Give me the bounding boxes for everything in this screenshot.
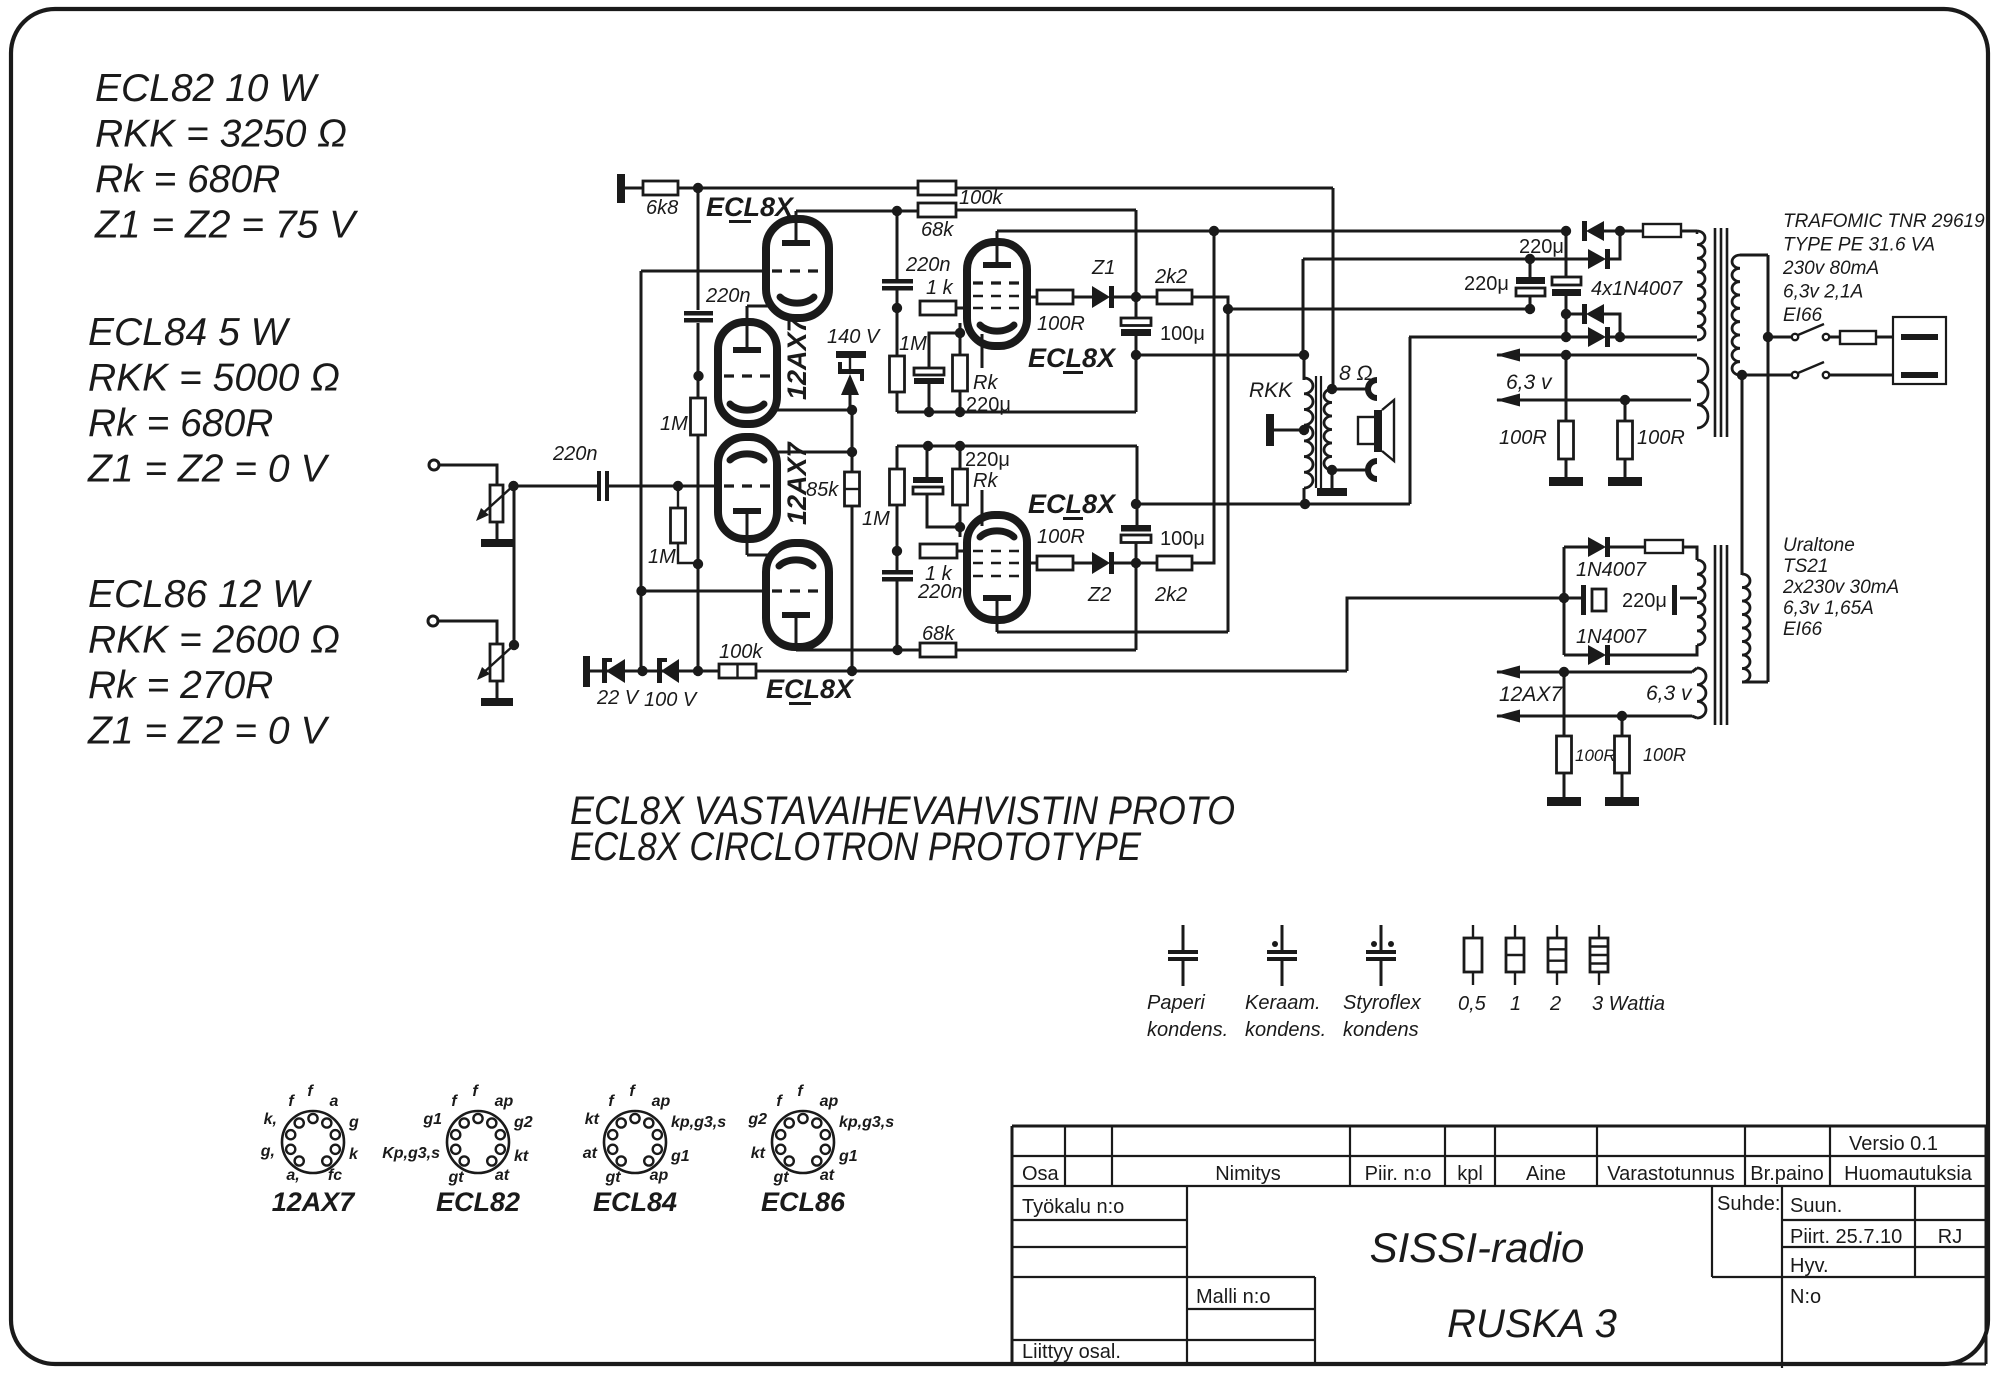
node x1742 — [1737, 370, 1747, 380]
svg-text:2k2: 2k2 — [1154, 584, 1187, 606]
svg-text:at: at — [583, 1145, 598, 1162]
legend resistor 0,5W — [1472, 925, 1474, 938]
wire x1136 B upper — [1136, 446, 1139, 525]
svg-text:220μ: 220μ — [1519, 236, 1564, 258]
wire x1136 B lower — [1135, 543, 1138, 563]
node rail B 220u — [923, 441, 933, 451]
capacitor 220u uraltone — [1581, 585, 1586, 615]
zener 140V — [849, 358, 851, 371]
wire speaker bottom — [1332, 469, 1371, 472]
svg-text:140 V: 140 V — [827, 326, 881, 348]
svg-text:ECL86 12 W: ECL86 12 W — [88, 573, 312, 616]
wire zener to x852 — [849, 395, 852, 412]
svg-text:100R: 100R — [1499, 427, 1547, 449]
capacitor 220n cell B — [882, 570, 913, 575]
socket ECL84 — [604, 1111, 666, 1173]
socket 12AX7 — [282, 1111, 344, 1173]
svg-text:kondens.: kondens. — [1245, 1019, 1326, 1041]
node Z2 x1136 — [1131, 558, 1141, 568]
resistor 100R psuA1 — [1565, 355, 1568, 421]
resistor 1k B — [920, 544, 957, 558]
node x852 y410 — [847, 405, 857, 415]
node RKK top — [1299, 350, 1309, 360]
svg-text:1 k: 1 k — [926, 277, 954, 299]
legend ceramic cap — [1281, 925, 1284, 950]
connector speaker bottom — [1368, 461, 1377, 479]
wire heater bottom line — [1497, 715, 1692, 718]
wire capA top lead — [1529, 259, 1532, 277]
node grid V1 — [693, 371, 703, 381]
wire cath B stub — [959, 527, 962, 537]
node x1768 switch — [1763, 332, 1773, 342]
wire UR tube to 100R — [1027, 296, 1037, 299]
wire x1136 A lower — [1135, 336, 1138, 412]
svg-text:RJ: RJ — [1938, 1226, 1962, 1248]
svg-text:g1: g1 — [670, 1148, 690, 1165]
wire wiper bus — [513, 487, 516, 644]
svg-text:1M: 1M — [648, 546, 676, 568]
svg-text:g2: g2 — [513, 1114, 533, 1131]
wire 220n B to 68k — [896, 581, 899, 650]
svg-text:kondens.: kondens. — [1147, 1019, 1228, 1041]
svg-text:kp,g3,s: kp,g3,s — [671, 1114, 726, 1131]
wire D2 right — [1606, 231, 1620, 259]
resistor 100k bias — [719, 664, 756, 678]
wire 1M A to rail — [896, 392, 899, 412]
wire x897 top — [896, 211, 899, 279]
wire RKK top lead — [1303, 355, 1306, 380]
diode D4 — [1588, 327, 1606, 347]
coil uraltone HV — [1697, 560, 1705, 645]
data text block 1 — [94, 67, 359, 247]
wire y309 line — [1228, 308, 1530, 311]
svg-text:Malli n:o: Malli n:o — [1196, 1286, 1270, 1308]
node x698 1M join — [693, 559, 703, 569]
svg-text:a: a — [330, 1093, 339, 1110]
wire y505 to RKK — [1136, 503, 1410, 506]
node RKK sec bottom — [1327, 465, 1337, 475]
diode D5 1N4007 — [1588, 537, 1606, 557]
svg-text:ECL8X: ECL8X — [766, 674, 855, 704]
node x1214 plate line — [1209, 226, 1219, 236]
diode Z1 — [1092, 286, 1110, 308]
svg-text:220n: 220n — [705, 285, 751, 307]
svg-text:EI66: EI66 — [1783, 619, 1823, 640]
node x852 bias — [847, 666, 857, 676]
wire Rk B top — [959, 446, 962, 469]
svg-text:Rk = 270R: Rk = 270R — [88, 664, 273, 707]
svg-text:Styroflex: Styroflex — [1343, 992, 1422, 1014]
resistor 100R psuB2 — [1621, 716, 1624, 736]
resistor Rk cell A — [953, 355, 968, 391]
svg-text:6,3 v: 6,3 v — [1646, 682, 1693, 705]
wire uraltone sec bottom — [1742, 681, 1768, 684]
arrow heater top — [1496, 666, 1520, 679]
wire rail cell A — [897, 411, 1136, 414]
tube 12AX7 upper — [718, 322, 777, 424]
wire LR tube to 100R — [1027, 562, 1037, 565]
svg-text:ECL8X CIRCLOTRON PROTOTYPE: ECL8X CIRCLOTRON PROTOTYPE — [570, 825, 1142, 869]
core RKK — [1315, 376, 1317, 488]
grid dashes UR 2 — [973, 295, 1021, 298]
svg-text:g: g — [348, 1114, 359, 1131]
wire 6k8 line y188 — [678, 187, 1333, 190]
wire grid line TL tube — [641, 270, 770, 273]
svg-text:ECL82 10 W: ECL82 10 W — [95, 67, 319, 110]
svg-text:100R: 100R — [1643, 745, 1686, 765]
tube ECL8X top-left — [766, 219, 829, 318]
wire y337 line — [1409, 336, 1588, 339]
tube 12AX7 lower — [718, 437, 777, 539]
node 6v3 R1 — [1561, 350, 1571, 360]
wire Z2 to 2k2 — [1113, 562, 1157, 565]
wire x852 lower — [851, 506, 854, 671]
input jack J2 — [428, 616, 438, 626]
capacitor 220n fb A — [684, 311, 713, 316]
resistor 68k A — [918, 203, 956, 217]
svg-text:100R: 100R — [1637, 427, 1685, 449]
node Z1 x1136 — [1131, 292, 1141, 302]
resistor Rk cell B — [953, 469, 968, 505]
svg-text:Aine: Aine — [1526, 1163, 1566, 1185]
wire 6v3 top line — [1497, 354, 1697, 357]
svg-text:Z2: Z2 — [1087, 584, 1111, 606]
svg-text:12AX7: 12AX7 — [782, 315, 812, 400]
svg-text:220μ: 220μ — [965, 449, 1010, 471]
coil RKK primary — [1304, 378, 1313, 488]
title block table — [1011, 1126, 1014, 1364]
node 68k B left — [892, 645, 902, 655]
svg-text:ECL84 5 W: ECL84 5 W — [88, 311, 291, 354]
coil RKK secondary — [1324, 389, 1332, 470]
svg-text:TYPE PE 31.6 VA: TYPE PE 31.6 VA — [1783, 235, 1935, 256]
node capB D3 — [1561, 309, 1571, 319]
wire uraltone sec top — [1741, 572, 1744, 575]
grid dashes LR 1 — [973, 550, 1021, 553]
svg-text:Br.paino: Br.paino — [1750, 1163, 1823, 1185]
terminal 6k8 input — [617, 174, 625, 203]
node RKK sec top — [1327, 384, 1337, 394]
ground psuB2 — [1621, 773, 1624, 797]
svg-text:0,5: 0,5 — [1458, 993, 1487, 1015]
svg-text:Z1 = Z2 = 0 V: Z1 = Z2 = 0 V — [87, 710, 330, 753]
svg-text:ap: ap — [650, 1167, 669, 1184]
svg-text:2: 2 — [1549, 993, 1561, 1015]
svg-text:RUSKA 3: RUSKA 3 — [1447, 1302, 1617, 1346]
resistor 100k A — [918, 181, 956, 195]
resistor 68k B — [920, 643, 956, 657]
coil uraltone secondary — [1742, 574, 1750, 682]
socket ECL82 — [447, 1111, 509, 1173]
wire S2 to plug — [1829, 374, 1902, 377]
wire y259 line — [1302, 259, 1305, 355]
resistor 100R A — [1037, 290, 1073, 304]
capacitor 100u A — [1121, 318, 1151, 326]
svg-text:ECL8X: ECL8X — [1028, 489, 1117, 519]
wire plate TL to 68k — [796, 210, 918, 213]
tube ECL8X bottom-left — [766, 543, 829, 647]
coil TNR primary — [1697, 231, 1705, 340]
node rail A 220u — [924, 407, 934, 417]
potentiometer P1 — [490, 485, 503, 522]
switch S2 — [1792, 372, 1798, 378]
svg-text:Keraam.: Keraam. — [1245, 992, 1321, 1014]
coil uraltone 6v3 — [1697, 668, 1706, 718]
plate LR tube — [983, 595, 1011, 601]
svg-text:100R: 100R — [1037, 526, 1085, 548]
svg-text:N:o: N:o — [1790, 1286, 1821, 1308]
svg-text:4x1N4007: 4x1N4007 — [1591, 278, 1683, 300]
wire heater top line — [1497, 671, 1692, 674]
svg-text:Suhde:: Suhde: — [1717, 1193, 1780, 1215]
svg-text:220μ: 220μ — [1464, 273, 1509, 295]
ground RKK — [1331, 470, 1334, 488]
svg-text:RKK = 3250 Ω: RKK = 3250 Ω — [95, 113, 347, 156]
wire signal to cap — [513, 485, 598, 488]
svg-text:220n: 220n — [905, 254, 951, 276]
resistor 100R psuA2 — [1624, 400, 1627, 421]
svg-text:12AX7: 12AX7 — [782, 440, 812, 525]
svg-text:Rk: Rk — [973, 470, 998, 492]
wire S1 to fuse — [1829, 336, 1840, 339]
svg-text:kt: kt — [514, 1148, 529, 1165]
wire plate V2 link — [747, 554, 768, 557]
svg-text:k: k — [349, 1146, 359, 1163]
legend paper cap — [1182, 925, 1185, 950]
wire plate line B — [997, 631, 1228, 634]
wire Z1 to 2k2 — [1113, 296, 1157, 299]
svg-text:220n: 220n — [552, 443, 598, 465]
node rail A Rk — [955, 407, 965, 417]
svg-text:Z1: Z1 — [1091, 257, 1115, 279]
terminal 22V rail — [583, 656, 590, 687]
wire x1768 mains — [1767, 255, 1770, 682]
svg-text:Uraltone: Uraltone — [1783, 535, 1855, 556]
svg-text:2k2: 2k2 — [1154, 266, 1187, 288]
svg-text:Hyv.: Hyv. — [1790, 1255, 1829, 1277]
resistor 1M fb A — [691, 398, 706, 435]
legend resistor 2W — [1556, 925, 1558, 938]
svg-text:Varastotunnus: Varastotunnus — [1607, 1163, 1735, 1185]
wire D1 to fuse — [1604, 230, 1643, 233]
svg-text:g1: g1 — [838, 1148, 858, 1165]
wire x698 mid — [697, 323, 700, 398]
svg-text:EI66: EI66 — [1783, 305, 1823, 326]
resistor 1k A — [920, 301, 956, 315]
ground psuA2 — [1624, 459, 1627, 477]
resistor 1M grid V2 — [677, 486, 679, 508]
plate UR tube — [983, 262, 1011, 268]
svg-text:ECL8X: ECL8X — [706, 192, 795, 222]
svg-text:ECL86: ECL86 — [761, 1187, 846, 1217]
cathode BL tube — [779, 560, 813, 566]
coil TNR 6v3 — [1697, 358, 1708, 428]
data text block 2 — [87, 311, 340, 491]
svg-text:Huomautuksia: Huomautuksia — [1844, 1163, 1973, 1185]
arrow heater bottom — [1496, 710, 1520, 723]
svg-text:100μ: 100μ — [1160, 528, 1205, 550]
svg-text:kondens: kondens — [1343, 1019, 1419, 1041]
ground P2 — [496, 681, 499, 698]
svg-text:Versio 0.1: Versio 0.1 — [1849, 1133, 1938, 1155]
resistor 2k2 A — [1157, 290, 1192, 304]
diode D3 — [1586, 304, 1604, 324]
wire fuse to prim — [1681, 230, 1697, 233]
wire y355 to RKK — [1136, 354, 1304, 357]
wire Rk A bottom — [959, 391, 962, 412]
svg-text:g,: g, — [260, 1143, 275, 1160]
svg-text:220n: 220n — [917, 581, 963, 603]
svg-text:8 Ω: 8 Ω — [1339, 362, 1373, 385]
wire J1 to pot — [439, 465, 497, 485]
node D4 right — [1615, 332, 1625, 342]
wire cap uraltone leads — [1564, 597, 1581, 600]
wire cap to grid V2 — [609, 485, 720, 488]
speaker — [1358, 417, 1377, 444]
svg-text:ap: ap — [495, 1093, 514, 1110]
svg-text:ap: ap — [820, 1093, 839, 1110]
plate V1 — [733, 347, 761, 353]
svg-text:a,: a, — [286, 1167, 299, 1184]
wire 100R to Z2 — [1073, 562, 1092, 565]
grid dashes TL tube — [772, 269, 822, 272]
svg-text:Piir. n:o: Piir. n:o — [1365, 1163, 1432, 1185]
wire sec bottom lead — [1740, 374, 1792, 377]
legend resistor 1W — [1514, 925, 1516, 938]
wire 68k A to x1136 — [956, 209, 1136, 212]
svg-text:3 Wattia: 3 Wattia — [1592, 993, 1665, 1015]
svg-text:gt: gt — [772, 1169, 789, 1186]
svg-text:Nimitys: Nimitys — [1215, 1163, 1281, 1185]
wire x897 to 1k A — [896, 290, 899, 356]
wire 2k2 A to x1228 — [1192, 297, 1228, 632]
svg-text:68k: 68k — [922, 623, 955, 645]
svg-text:RKK: RKK — [1249, 379, 1293, 402]
node x641 diode line — [637, 666, 647, 676]
svg-text:kp,g3,s: kp,g3,s — [839, 1114, 894, 1131]
svg-text:Z1 = Z2 = 75 V: Z1 = Z2 = 75 V — [94, 204, 359, 247]
wire bias to PSU — [1347, 598, 1564, 671]
diode D6 1N4007 — [1588, 645, 1606, 665]
core uraltone — [1714, 545, 1717, 725]
svg-text:6k8: 6k8 — [646, 197, 678, 219]
wire bias line right — [756, 670, 1347, 673]
wire x1564 column — [1563, 547, 1566, 655]
svg-text:1: 1 — [1510, 993, 1521, 1015]
capacitor 220u PSU A — [1516, 277, 1545, 284]
grid dashes UR 1 — [973, 281, 1021, 284]
capacitor 220u cell B — [913, 477, 943, 483]
node wiper top — [508, 481, 518, 491]
svg-text:kt: kt — [585, 1111, 600, 1128]
svg-text:kpl: kpl — [1457, 1163, 1483, 1185]
node D1 right — [1615, 226, 1625, 236]
wire plate line A — [997, 230, 1566, 233]
grid dashes LR 3 — [973, 575, 1021, 578]
node 6v3 R2 — [1620, 395, 1630, 405]
svg-text:220μ: 220μ — [1622, 590, 1667, 612]
svg-text:Rk: Rk — [973, 372, 998, 394]
wire x698 lower — [697, 435, 700, 671]
grid dashes LR 2 — [973, 562, 1021, 565]
zener 100V — [661, 659, 679, 683]
diode D1 — [1586, 221, 1604, 241]
wire cath A stub — [959, 323, 962, 333]
coil TNR secondary — [1732, 255, 1740, 375]
svg-text:ap: ap — [652, 1093, 671, 1110]
wire cathode V1 to x852 — [774, 409, 852, 412]
node x698 diode line — [693, 666, 703, 676]
wire cathode V2 to x852 — [774, 451, 852, 454]
node x1136 y355 — [1131, 350, 1141, 360]
node capB y337 — [1561, 332, 1571, 342]
arrow 6v3 top — [1496, 349, 1520, 362]
plate TL tube — [782, 240, 810, 246]
wire D3 leads — [1566, 313, 1586, 316]
wire Rk A top — [959, 333, 962, 355]
wire 100R to Z1 — [1073, 296, 1092, 299]
capacitor 100u B — [1121, 525, 1151, 532]
wire capB top lead — [1565, 231, 1568, 277]
svg-text:RKK = 5000 Ω: RKK = 5000 Ω — [88, 357, 340, 400]
wire y188 to speaker — [1332, 188, 1335, 389]
connector speaker top — [1368, 380, 1377, 398]
wire x1136 A upper — [1135, 210, 1138, 318]
wire capB bottom lead — [1565, 296, 1568, 337]
svg-text:Suun.: Suun. — [1790, 1195, 1842, 1217]
wire fuse to HV — [1683, 547, 1697, 560]
svg-text:2x230v 30mA: 2x230v 30mA — [1782, 577, 1899, 598]
wire x698 upper — [697, 188, 700, 310]
node RKK tap — [1299, 425, 1309, 435]
svg-text:100R: 100R — [1037, 313, 1085, 335]
svg-text:6,3 v: 6,3 v — [1506, 371, 1553, 394]
svg-text:kt: kt — [751, 1145, 766, 1162]
wire fuse to plug — [1876, 336, 1902, 339]
wire 1M B to 1k — [896, 505, 899, 570]
svg-text:100R: 100R — [1575, 746, 1616, 765]
wire D6 line — [1564, 654, 1588, 657]
resistor 85k — [845, 472, 860, 506]
svg-text:gt: gt — [604, 1169, 621, 1186]
svg-text:1N4007: 1N4007 — [1576, 626, 1647, 648]
svg-text:1M: 1M — [660, 413, 688, 435]
wire sec top lead — [1740, 254, 1768, 257]
grid dashes UR 3 — [973, 307, 1021, 310]
resistor 1M cell A — [890, 356, 905, 392]
svg-text:Rk = 680R: Rk = 680R — [88, 402, 273, 445]
wire capA bottom lead — [1529, 296, 1532, 309]
wire 1k B to grid — [957, 550, 968, 553]
legend styroflex cap — [1380, 925, 1383, 950]
grid dashes V1 — [724, 374, 771, 377]
wire x1136 B to 68k — [1135, 563, 1138, 650]
svg-text:ECL82: ECL82 — [436, 1187, 520, 1217]
node capA bottom — [1525, 304, 1535, 314]
svg-text:gt: gt — [447, 1169, 464, 1186]
socket ECL86 — [772, 1111, 834, 1173]
wire to switch1 — [1768, 336, 1792, 339]
potentiometer P2 — [490, 644, 503, 681]
diode Z2 — [1092, 552, 1110, 574]
tube ECL8X upper-right — [967, 242, 1027, 346]
wire 220u B top — [926, 446, 929, 477]
svg-text:6,3v 2,1A: 6,3v 2,1A — [1783, 282, 1863, 303]
ground P1 — [496, 522, 499, 539]
diode D2 — [1588, 249, 1606, 269]
grid dashes V2 — [724, 484, 771, 487]
svg-text:Z1 = Z2 = 0 V: Z1 = Z2 = 0 V — [87, 448, 330, 491]
